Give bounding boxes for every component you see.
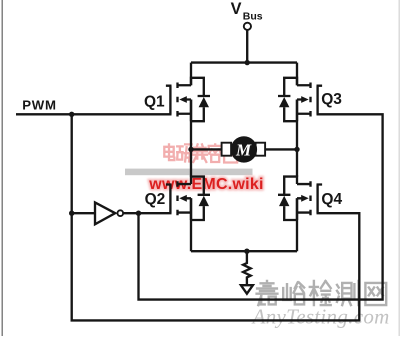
- svg-text:Q3: Q3: [321, 91, 342, 108]
- svg-text:M: M: [235, 140, 252, 159]
- svg-text:Q1: Q1: [144, 93, 165, 110]
- svg-text:AnyTesting.com: AnyTesting.com: [251, 305, 390, 329]
- svg-text:www.EMC.wiki: www.EMC.wiki: [148, 176, 263, 193]
- svg-text:PWM: PWM: [22, 97, 56, 112]
- svg-text:Q4: Q4: [321, 191, 342, 208]
- svg-text:V: V: [231, 0, 242, 18]
- svg-text:Bus: Bus: [243, 11, 263, 23]
- svg-text:Q2: Q2: [145, 191, 166, 208]
